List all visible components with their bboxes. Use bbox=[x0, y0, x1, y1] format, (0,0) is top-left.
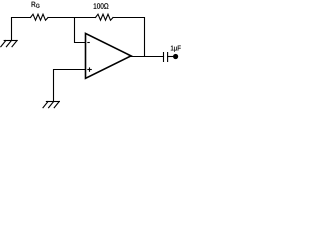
wire capacitor to terminal bbox=[168, 56, 174, 58]
wire input ground to RG bbox=[12, 18, 31, 41]
resistor R1 100 ohm bbox=[96, 14, 114, 20]
wire non-inverting input bbox=[54, 70, 86, 102]
wire op-amp output bbox=[131, 56, 164, 58]
ground (non-inverting input) bbox=[43, 102, 59, 108]
ground (top left input) bbox=[1, 41, 17, 47]
terminal dot VOUT bbox=[173, 54, 178, 59]
wire 100 ohm to feedback corner down to output bbox=[113, 18, 145, 57]
resistor RG bbox=[31, 14, 49, 20]
label 1uF bbox=[171, 46, 181, 52]
label 100 ohm bbox=[94, 3, 109, 9]
wire RG to 100 ohm bbox=[48, 17, 96, 19]
wire inverting input tap bbox=[75, 18, 86, 43]
label RG bbox=[32, 2, 40, 8]
op-amp U1 bbox=[86, 33, 132, 78]
capacitor C1 1uF bbox=[164, 52, 168, 62]
